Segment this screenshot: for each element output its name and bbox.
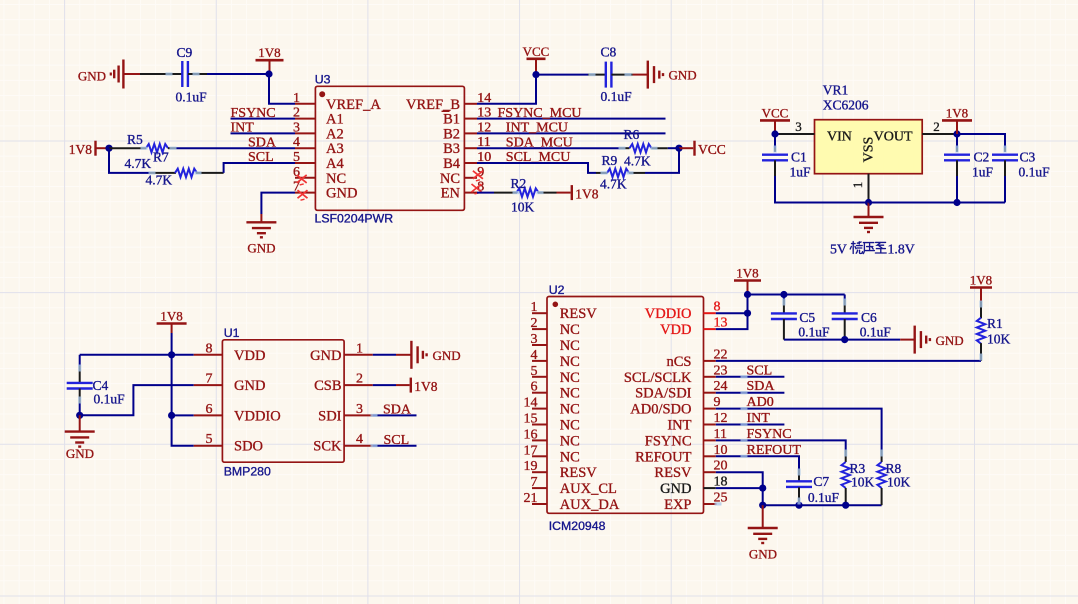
svg-text:1V8: 1V8: [970, 273, 992, 288]
svg-text:4.7K: 4.7K: [146, 173, 173, 188]
svg-text:EXP: EXP: [664, 497, 691, 513]
net label FSYNC_MCU with wire (U3 pin 13): [477, 106, 666, 121]
svg-text:R2: R2: [511, 176, 527, 191]
junction node C2/ground rail: [953, 199, 960, 206]
svg-text:6: 6: [206, 402, 213, 417]
svg-text:8: 8: [206, 341, 213, 356]
wire C5/C6 bottoms to ground: [784, 339, 900, 341]
svg-text:1V8: 1V8: [575, 187, 598, 202]
svg-text:XC6206: XC6206: [823, 98, 869, 113]
wire U3 pin 8 (EN) to R2: [477, 192, 494, 194]
svg-text:17: 17: [524, 443, 538, 458]
svg-text:SDA: SDA: [383, 403, 412, 418]
svg-text:INT_MCU: INT_MCU: [506, 121, 568, 136]
svg-text:10K: 10K: [851, 475, 875, 490]
resistor R1 10K: [977, 301, 1011, 361]
svg-text:NC: NC: [326, 171, 346, 187]
U1 right pins 1,2,3,4: [344, 341, 373, 447]
net label INT with wire (U2 pin 12): [716, 411, 785, 426]
wire U1 pin 2 to 1V8 port: [373, 384, 396, 386]
svg-text:0.1uF: 0.1uF: [94, 392, 126, 407]
svg-text:RESV: RESV: [560, 306, 598, 322]
svg-text:EN: EN: [441, 186, 461, 202]
power port VCC (top): [523, 44, 550, 75]
power port 1V8 (above R1): [970, 273, 992, 302]
capacitor C8 0.1uF: [588, 44, 633, 104]
net label SDA with wire (U1 pin 3): [373, 403, 417, 418]
wire ground rail below U2: [763, 504, 882, 506]
svg-text:6: 6: [531, 380, 538, 395]
svg-text:4.7K: 4.7K: [125, 156, 152, 171]
wire U3 pin 11 to R6: [477, 147, 620, 149]
wire 1V8 down to VDD pin 13: [716, 295, 748, 330]
svg-text:2: 2: [933, 119, 940, 134]
junction node 1V8/VDD: [168, 351, 175, 358]
net label INT_MCU with wire (U3 pin 12): [477, 121, 666, 136]
svg-text:C6: C6: [861, 310, 877, 325]
ground GND (right of U1): [396, 341, 461, 369]
wire ground rail right section: [869, 202, 1006, 204]
svg-text:7: 7: [206, 372, 213, 387]
wire VCC node to C8: [536, 74, 588, 76]
svg-text:1.8V: 1.8V: [888, 242, 915, 257]
svg-text:5: 5: [531, 364, 538, 379]
U2 right pin names: [624, 306, 692, 513]
svg-text:GND: GND: [749, 547, 777, 562]
svg-text:3: 3: [356, 402, 363, 417]
power port VCC (right): [679, 141, 726, 158]
wire R7 to U3 pin 5 (SCL): [224, 163, 295, 173]
svg-text:1: 1: [293, 91, 300, 106]
power port 1V8 (VR1 output): [942, 105, 972, 134]
svg-text:CSB: CSB: [314, 378, 341, 394]
IC U3 LSF0204PWR body: [315, 73, 465, 226]
U3 left pins 1-7: [293, 91, 315, 195]
svg-text:SCL/SCLK: SCL/SCLK: [624, 370, 692, 386]
resistor R6 4.7K: [620, 127, 668, 168]
resistor R8 10K: [877, 450, 910, 505]
svg-text:0.1uF: 0.1uF: [808, 490, 840, 505]
svg-text:SDI: SDI: [318, 408, 342, 424]
svg-text:B2: B2: [443, 126, 460, 142]
wire R1 to U2 pin 22 (nCS): [716, 360, 981, 362]
svg-text:GND: GND: [310, 348, 341, 364]
IC U2 ICM20948 body: [547, 283, 704, 533]
resistor R7 4.7K: [146, 150, 224, 188]
svg-text:SCL: SCL: [747, 363, 773, 378]
VR1 pin 1 (VSS): [850, 174, 869, 203]
junction node C4/GND: [76, 412, 83, 419]
U2 pin 25 (EXP) stub unconnected: [704, 503, 717, 505]
svg-text:INT: INT: [231, 121, 255, 136]
power port 1V8 (right of R2): [557, 185, 599, 202]
pale connection markers: [78, 72, 1007, 505]
net label SDA with wire (U2 pin 24): [716, 379, 785, 394]
wire VDDIO pin 8: [716, 312, 748, 314]
svg-text:GND: GND: [433, 348, 461, 363]
svg-text:VREF_A: VREF_A: [326, 97, 381, 113]
junction node at R5/R7 split: [105, 145, 112, 152]
svg-text:19: 19: [524, 459, 538, 474]
svg-text:NC: NC: [560, 354, 580, 370]
capacitor C3 0.1uF: [992, 148, 1050, 203]
wire 1V8 node down to R7: [109, 148, 150, 173]
svg-text:SDO: SDO: [234, 439, 263, 455]
svg-text:VCC: VCC: [698, 142, 726, 157]
net label FSYNC with wire (U2 pin 11): [716, 427, 846, 450]
svg-text:B3: B3: [443, 141, 460, 157]
svg-text:C2: C2: [974, 150, 990, 165]
junction node 1V8/C5 branch: [744, 291, 751, 298]
svg-text:21: 21: [524, 491, 538, 506]
net label AD0 with wire (U2 pin 9): [716, 395, 882, 450]
svg-text:GND: GND: [234, 378, 265, 394]
svg-text:nCS: nCS: [667, 354, 692, 370]
svg-text:1uF: 1uF: [972, 165, 994, 180]
svg-text:U2: U2: [549, 283, 565, 297]
svg-text:SCL: SCL: [384, 433, 410, 448]
svg-text:NC: NC: [560, 338, 580, 354]
capacitor C6 0.1uF: [832, 295, 892, 340]
svg-text:C5: C5: [799, 310, 815, 325]
svg-text:C3: C3: [1020, 150, 1036, 165]
resistor R2 10K: [494, 176, 557, 214]
ground GND (below VR1): [854, 203, 884, 233]
U1 left pins 8,7,6,5: [194, 341, 223, 447]
svg-text:GND: GND: [669, 68, 697, 83]
svg-text:NC: NC: [560, 449, 580, 465]
svg-text:4: 4: [531, 348, 538, 363]
power port VCC (VR1 input): [760, 105, 790, 134]
net label REFOUT with wire (U2 pin 10): [716, 443, 802, 470]
svg-text:VSS: VSS: [862, 137, 877, 163]
svg-text:0.1uF: 0.1uF: [798, 325, 830, 340]
svg-text:R5: R5: [127, 132, 143, 147]
svg-text:14: 14: [524, 396, 538, 411]
power port 1V8 (top left): [256, 45, 284, 74]
svg-text:SCK: SCK: [313, 439, 342, 455]
capacitor C2 1uF: [944, 134, 994, 203]
svg-text:VOUT: VOUT: [874, 130, 913, 145]
junction node R6/R9/VCC: [675, 145, 682, 152]
svg-text:FSYNC: FSYNC: [231, 106, 276, 121]
svg-text:NC: NC: [560, 322, 580, 338]
wire VOUT node to C3 branch: [957, 134, 1005, 152]
ground GND (near C9): [78, 60, 140, 89]
wire C1 down to ground rail: [775, 176, 869, 203]
wire U1 pin 1 to ground: [373, 354, 396, 356]
capacitor C9 0.1uF: [140, 45, 207, 105]
net label SCL with wire (U1 pin 4): [373, 433, 417, 448]
svg-text:4: 4: [356, 432, 363, 447]
svg-text:16: 16: [524, 427, 538, 442]
svg-text:0.1uF: 0.1uF: [176, 90, 208, 105]
svg-text:4.7K: 4.7K: [600, 177, 627, 192]
resistor R9 4.7K: [596, 153, 645, 191]
svg-text:0.1uF: 0.1uF: [1019, 165, 1051, 180]
svg-text:LSF0204PWR: LSF0204PWR: [315, 212, 394, 226]
svg-text:NC: NC: [560, 386, 580, 402]
junction node VCC/C8: [532, 71, 539, 78]
wire U2 pin 18 (GND): [716, 487, 763, 489]
svg-text:VDD: VDD: [660, 322, 691, 338]
svg-text:RESV: RESV: [560, 465, 598, 481]
wire U3 pin 7 to ground: [261, 193, 295, 214]
svg-text:GND: GND: [66, 446, 94, 461]
U3 right pin names: [406, 97, 461, 202]
svg-text:R7: R7: [153, 150, 169, 165]
svg-text:3: 3: [795, 119, 802, 134]
svg-text:7: 7: [531, 475, 538, 490]
IC U1 BMP280 body: [222, 326, 344, 479]
svg-text:3: 3: [531, 332, 538, 347]
svg-text:GND: GND: [326, 186, 357, 202]
capacitor C5 0.1uF: [771, 295, 830, 340]
net label FSYNC with wire (U3 pin 2): [231, 106, 296, 121]
svg-text:B1: B1: [443, 112, 460, 128]
U2 left pins: [524, 300, 548, 506]
voltage regulator VR1 XC6206 body: [815, 83, 923, 174]
svg-text:A3: A3: [326, 141, 344, 157]
svg-text:10K: 10K: [887, 475, 911, 490]
svg-text:INT: INT: [667, 418, 691, 434]
ground GND (right of C8): [633, 61, 697, 89]
svg-text:R9: R9: [602, 153, 618, 168]
svg-text:NC: NC: [560, 370, 580, 386]
junction node R3 bottom: [842, 502, 849, 509]
svg-text:A1: A1: [326, 112, 344, 128]
svg-text:GND: GND: [78, 69, 106, 84]
wire VCC node to VIN: [775, 133, 779, 135]
ground GND (below U3): [246, 214, 276, 256]
svg-text:10K: 10K: [511, 200, 535, 215]
svg-text:VDDIO: VDDIO: [645, 306, 692, 322]
svg-text:REFOUT: REFOUT: [635, 449, 692, 465]
junction node VDDIO tap: [744, 310, 751, 317]
svg-text:1V8: 1V8: [160, 309, 182, 324]
svg-text:BMP280: BMP280: [224, 465, 271, 479]
svg-text:NC: NC: [560, 418, 580, 434]
svg-text:NC: NC: [560, 402, 580, 418]
svg-text:GND: GND: [660, 481, 691, 497]
svg-text:RESV: RESV: [654, 465, 692, 481]
U1 left pin names: [234, 348, 281, 455]
svg-text:C8: C8: [601, 44, 617, 59]
annotation 5V regulate to 1.8V: [830, 242, 915, 257]
junction node VOUT/C2: [953, 130, 960, 137]
junction node C5 top: [780, 291, 787, 298]
junction node C6 bottom: [841, 336, 848, 343]
power port 1V8 (right of U1): [396, 378, 438, 395]
capacitor C4 0.1uF: [67, 355, 125, 416]
svg-text:U1: U1: [224, 326, 240, 340]
svg-text:AD0: AD0: [747, 395, 774, 410]
svg-text:NC: NC: [440, 171, 460, 187]
svg-text:FSYNC_MCU: FSYNC_MCU: [498, 106, 582, 121]
wire R9 up to VCC node: [645, 148, 679, 173]
ground GND (right of C6): [900, 326, 963, 354]
svg-text:0.1uF: 0.1uF: [860, 325, 892, 340]
wire C9 to 1V8 node: [207, 73, 269, 75]
svg-text:VDDIO: VDDIO: [234, 408, 281, 424]
svg-text:INT: INT: [747, 411, 771, 426]
wire 1V8 node to C5/C6: [748, 294, 845, 296]
junction node VCC/C1: [771, 130, 778, 137]
VR1 pin 3 (VIN): [778, 119, 815, 134]
wire R6 to VCC port: [668, 147, 679, 149]
svg-text:1: 1: [850, 182, 865, 189]
junction node VSS/ground rail: [865, 199, 872, 206]
svg-text:GND: GND: [936, 333, 964, 348]
svg-text:R1: R1: [987, 316, 1003, 331]
svg-text:5V: 5V: [830, 242, 847, 257]
svg-text:C7: C7: [813, 474, 829, 489]
svg-text:A4: A4: [326, 156, 344, 172]
wire VDDIO to U1 pin 6: [172, 414, 194, 416]
svg-text:R6: R6: [624, 127, 640, 142]
svg-text:1V8: 1V8: [258, 45, 280, 60]
svg-text:1uF: 1uF: [790, 165, 812, 180]
U2 right pins: [704, 300, 728, 506]
power port 1V8 (above U1): [157, 309, 187, 334]
capacitor C1 1uF: [762, 134, 811, 180]
svg-text:FSYNC: FSYNC: [747, 427, 792, 442]
svg-text:SDA: SDA: [747, 379, 776, 394]
svg-text:VDD: VDD: [234, 348, 265, 364]
svg-text:10K: 10K: [987, 332, 1011, 347]
svg-text:AUX_CL: AUX_CL: [560, 481, 617, 497]
svg-text:2: 2: [356, 372, 363, 387]
svg-text:B4: B4: [443, 156, 461, 172]
svg-text:15: 15: [524, 412, 538, 427]
resistor R5 4.7K: [109, 132, 176, 171]
svg-text:REFOUT: REFOUT: [747, 443, 802, 458]
wire 1V8 rail down to U1 pin 5 (SDO): [172, 333, 194, 446]
VR1 pin 2 (VOUT): [922, 119, 957, 134]
wire U1 pin 7 (GND) to C4 node: [80, 385, 194, 415]
no-connect X on U3 pins 6,7,9,8: [297, 171, 483, 200]
svg-text:1V8: 1V8: [69, 142, 92, 157]
svg-text:4.7K: 4.7K: [624, 154, 651, 169]
resistor R3 10K: [842, 450, 875, 505]
svg-text:1: 1: [531, 300, 538, 315]
junction node pin18/vertical: [759, 485, 766, 492]
svg-text:FSYNC: FSYNC: [645, 433, 692, 449]
svg-text:A2: A2: [326, 126, 344, 142]
svg-text:VCC: VCC: [523, 44, 550, 59]
wire VCC node to U3 pin 14: [477, 75, 536, 104]
ground GND (below U2): [748, 505, 778, 561]
svg-text:ICM20948: ICM20948: [549, 519, 606, 533]
wire R5 to U3 pin 4 (SDA): [176, 147, 295, 149]
svg-text:VCC: VCC: [762, 105, 789, 120]
svg-text:C1: C1: [791, 150, 807, 165]
wire U3 pin 10 down to R9: [477, 163, 596, 173]
svg-text:C9: C9: [177, 45, 193, 60]
svg-text:NC: NC: [560, 433, 580, 449]
svg-text:SDA/SDI: SDA/SDI: [635, 386, 692, 402]
svg-text:1: 1: [356, 341, 363, 356]
wire VDD row to C4: [80, 354, 194, 356]
power port 1V8 (left, feeds R5/R7): [69, 141, 109, 158]
net label INT with wire (U3 pin 3): [231, 121, 296, 136]
U3 left pin names: [326, 97, 381, 202]
svg-text:2: 2: [531, 316, 538, 331]
wire 1V8 node to U3 pin 1: [269, 74, 295, 104]
svg-text:AD0/SDO: AD0/SDO: [630, 402, 691, 418]
svg-text:5: 5: [206, 432, 213, 447]
svg-text:1V8: 1V8: [946, 105, 968, 120]
ground GND (below C4): [65, 415, 95, 461]
U3 right pins 8-14: [464, 91, 491, 195]
U1 right pin names: [310, 348, 342, 455]
svg-text:VREF_B: VREF_B: [406, 97, 460, 113]
svg-text:1V8: 1V8: [414, 379, 437, 394]
svg-text:VR1: VR1: [823, 83, 849, 98]
net label SCL with wire (U2 pin 23): [716, 363, 785, 378]
junction node 1V8/C9: [265, 70, 272, 77]
wire U2 pin 20 (RESV) down: [716, 472, 763, 505]
svg-text:1V8: 1V8: [736, 266, 758, 281]
U2 left pin names: [560, 306, 620, 513]
svg-text:0.1uF: 0.1uF: [601, 89, 633, 104]
power port 1V8 (above U2): [734, 266, 761, 295]
svg-text:VIN: VIN: [827, 130, 852, 145]
junction node C7 bottom: [795, 502, 802, 509]
capacitor C7 0.1uF: [786, 470, 840, 505]
svg-text:U3: U3: [315, 73, 331, 87]
junction node 1V8/VDDIO: [168, 412, 175, 419]
svg-text:GND: GND: [247, 241, 275, 256]
junction node rail/GND stub: [759, 502, 766, 509]
svg-text:AUX_DA: AUX_DA: [560, 497, 620, 513]
